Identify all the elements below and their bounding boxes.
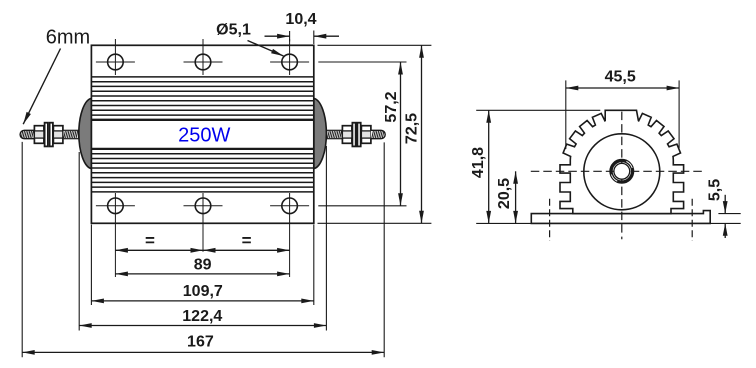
resistor body end cap right (grey dome) <box>314 98 327 168</box>
dimension 5,5 base thickness <box>718 213 740 215</box>
svg-text:20,5: 20,5 <box>496 178 513 209</box>
terminal stud left washers <box>45 123 48 147</box>
centerline vertical dashed <box>621 112 623 240</box>
top flange mounting holes <box>108 54 124 70</box>
dimension 89 hole spacing <box>115 273 289 275</box>
svg-text:41,8: 41,8 <box>470 147 487 178</box>
svg-text:5,5: 5,5 <box>707 179 724 201</box>
svg-text:57,2: 57,2 <box>383 91 400 122</box>
svg-text:6mm: 6mm <box>46 27 90 49</box>
svg-text:122,4: 122,4 <box>182 308 222 325</box>
terminal stud left hex nut 1 <box>34 126 44 144</box>
equal spacing dimension line <box>115 249 289 251</box>
svg-text:45,5: 45,5 <box>605 69 636 86</box>
dimension 72,5 overall height <box>318 44 432 46</box>
hidden mounting hole line left dashed <box>549 199 551 241</box>
svg-text:10,4: 10,4 <box>285 11 316 28</box>
dimension 41,8 overall height <box>476 109 600 111</box>
svg-text:=: = <box>242 231 252 250</box>
terminal stud left thread outer <box>20 130 34 138</box>
resistor body end cap left (grey dome) <box>79 98 92 168</box>
terminal stud right thread inner <box>327 130 343 138</box>
dimension 122,4 body width <box>78 152 80 331</box>
heatsink gear profile cross-section <box>560 110 684 213</box>
bottom flange mounting holes <box>108 198 124 214</box>
svg-text:Ø5,1: Ø5,1 <box>216 22 251 39</box>
svg-text:250W: 250W <box>178 125 230 147</box>
svg-text:89: 89 <box>194 256 212 273</box>
heatsink fins upper <box>91 76 313 78</box>
resistor core circle <box>584 134 660 210</box>
cross-section base plate <box>531 211 710 224</box>
dimension 109,7 flange width <box>90 225 92 306</box>
dimension 20,5 center height <box>515 171 517 223</box>
terminal hub threaded hole <box>611 161 633 183</box>
resistor body outline <box>91 45 313 223</box>
centerline horizontal dashed <box>531 170 702 172</box>
leader arrow hole diameter <box>248 41 284 57</box>
hidden mounting hole line right dashed <box>691 199 693 241</box>
svg-text:=: = <box>145 231 155 250</box>
terminal stud right hex nut 1 <box>342 126 352 144</box>
terminal stud left thread inner <box>63 130 79 138</box>
terminal stud right hex nut 2 <box>361 126 371 144</box>
terminal stud right washers <box>352 123 355 147</box>
heatsink fins lower <box>91 148 313 150</box>
terminal stud right thread outer <box>371 130 385 138</box>
svg-text:167: 167 <box>187 334 214 351</box>
leader arrow 6mm <box>23 49 60 125</box>
svg-text:72,5: 72,5 <box>404 113 421 144</box>
terminal stud left hex nut 2 <box>53 126 63 144</box>
dimension 167 overall length <box>21 142 23 357</box>
dimension 57,2 hole row spacing <box>318 61 406 63</box>
svg-text:109,7: 109,7 <box>183 283 223 300</box>
